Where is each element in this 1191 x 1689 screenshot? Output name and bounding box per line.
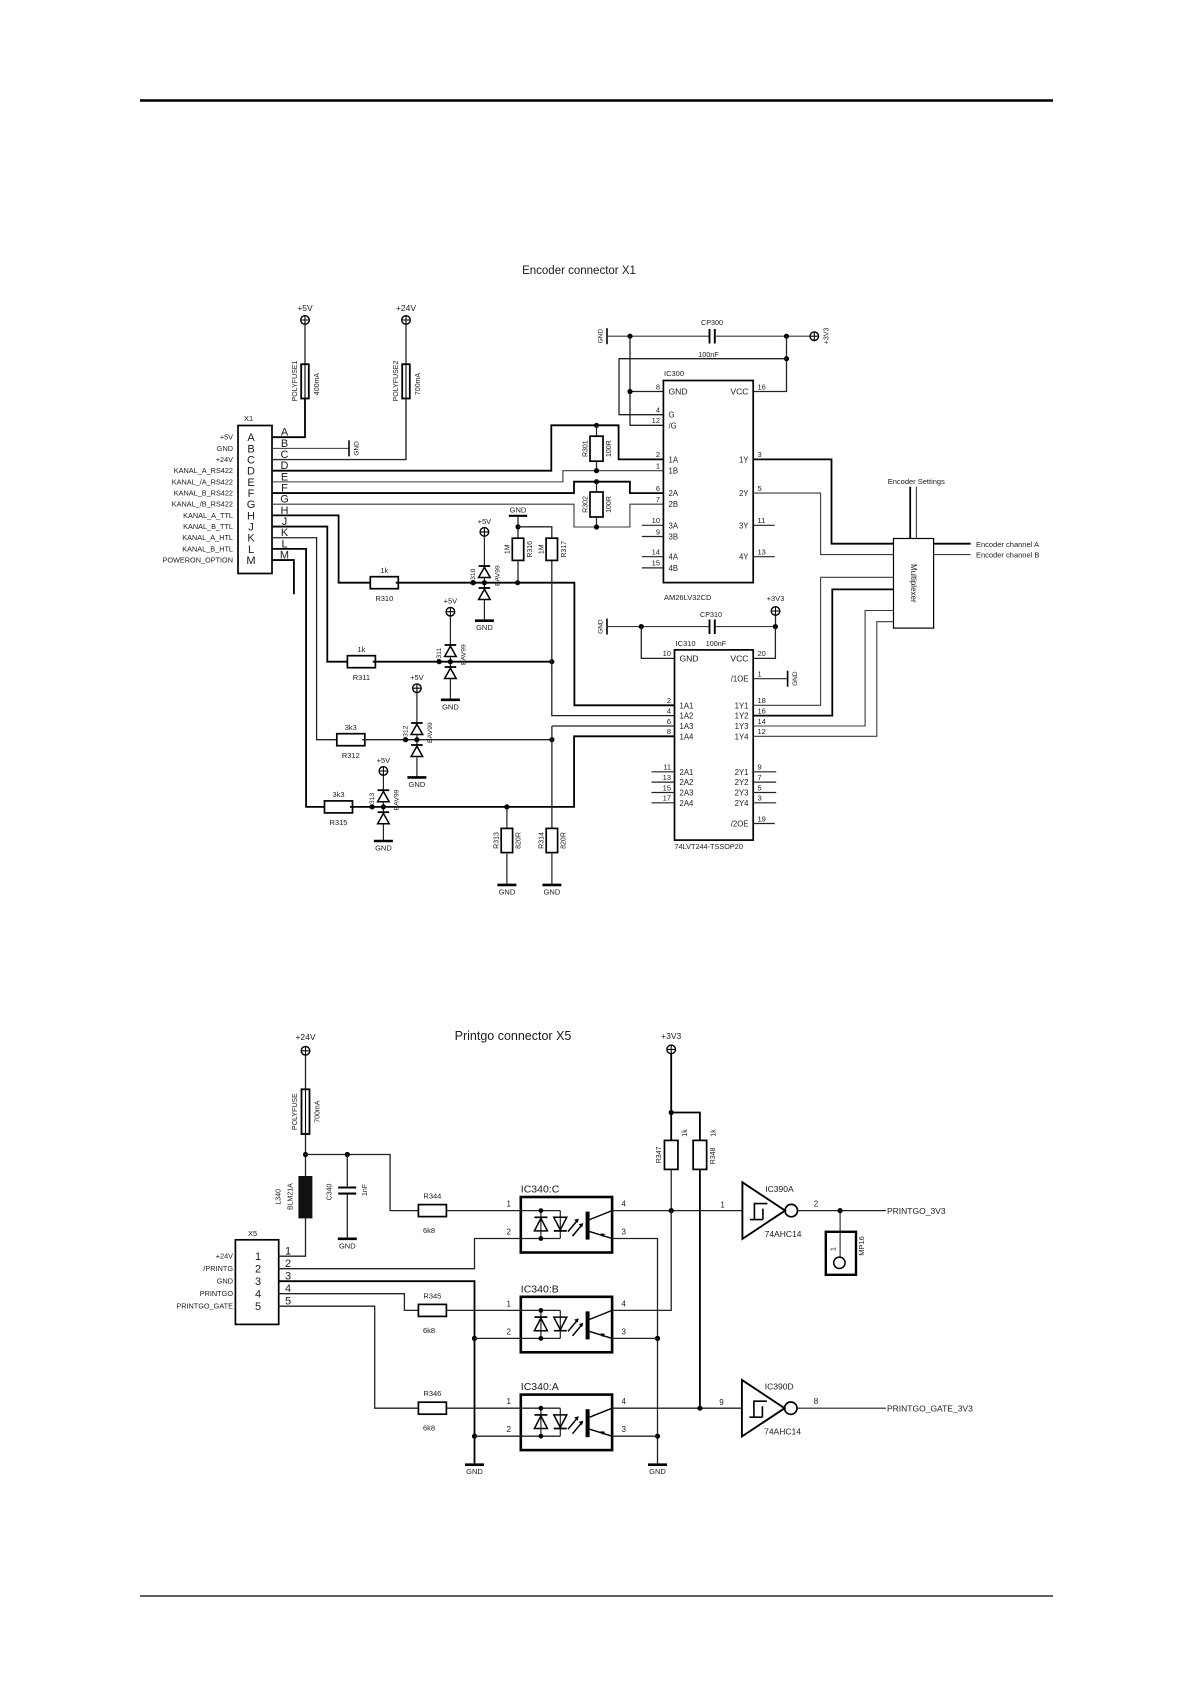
ground at IC310 /1OE: [787, 671, 789, 687]
svg-text:R311: R311: [353, 673, 370, 682]
svg-text:6k8: 6k8: [423, 1326, 435, 1335]
svg-text:3k3: 3k3: [345, 723, 357, 732]
net PRINTGO_3V3 output: [798, 1210, 887, 1212]
svg-text:BAV99: BAV99: [427, 722, 434, 743]
polyfuse POLYFUSE 700mA: [305, 1055, 307, 1089]
svg-text:POLYFUSE: POLYFUSE: [292, 1093, 299, 1130]
ground below R314: [542, 884, 561, 887]
svg-text:8: 8: [814, 1397, 819, 1406]
svg-text:4: 4: [622, 1200, 627, 1209]
svg-text:1A1: 1A1: [680, 701, 694, 710]
svg-text:13: 13: [663, 773, 671, 782]
svg-text:R315: R315: [330, 818, 348, 827]
svg-text:1A: 1A: [669, 455, 679, 464]
svg-text:1: 1: [829, 1247, 838, 1251]
svg-text:4: 4: [622, 1299, 627, 1308]
svg-text:18: 18: [758, 696, 766, 705]
svg-text:1A3: 1A3: [680, 722, 694, 731]
svg-text:16: 16: [758, 382, 766, 391]
svg-text:700mA: 700mA: [315, 1100, 322, 1123]
wire R312 to 1A3 node: [362, 739, 552, 741]
node on 1A1 net: [471, 580, 476, 585]
svg-text:1Y1: 1Y1: [735, 701, 749, 710]
ground below R313: [497, 884, 516, 887]
capacitor CP310 100nF: [607, 626, 709, 628]
svg-text:16: 16: [758, 706, 766, 715]
svg-text:1A2: 1A2: [680, 712, 694, 721]
svg-text:G: G: [669, 411, 675, 420]
node C340 top: [345, 1152, 350, 1157]
wire X1 pin B to ground: [272, 447, 349, 449]
svg-text:R347: R347: [656, 1146, 663, 1163]
svg-text:IC340:C: IC340:C: [521, 1184, 560, 1196]
resistor R347 1k: [664, 1140, 678, 1169]
svg-text:BAV99: BAV99: [460, 644, 467, 665]
svg-text:IC300: IC300: [664, 369, 684, 378]
net IC300 2Y to multiplexer (encoder B): [753, 493, 893, 554]
wire +24V fuse to X1 pin C: [272, 399, 406, 460]
wire R317 / 1A2 vertical to IC310 pin 4: [552, 560, 675, 715]
net KANAL_B_HTL: X1 L via R315 to IC310 1A4: [272, 549, 327, 807]
capacitor C340 1nF: [346, 1155, 348, 1187]
svg-text:GND: GND: [353, 441, 360, 456]
svg-text:1: 1: [507, 1299, 512, 1308]
node GND rail tie: [627, 334, 632, 339]
svg-text:PRINTGO_GATE: PRINTGO_GATE: [176, 1302, 233, 1311]
svg-text:3: 3: [758, 794, 762, 803]
IC310 stub /2OE pin 19: [753, 823, 775, 825]
resistor R315 3k3: [325, 801, 353, 813]
resistor R317 1M: [546, 538, 557, 560]
svg-text:+5V: +5V: [377, 756, 391, 765]
net Encoder channel B: [934, 554, 971, 556]
svg-text:1M: 1M: [505, 544, 512, 554]
svg-text:CP310: CP310: [700, 610, 722, 619]
svg-text:1Y3: 1Y3: [735, 722, 749, 731]
ferrite bead L340 BLM21A: [298, 1176, 312, 1218]
wire R314 to ground: [551, 853, 553, 885]
svg-text:+5V: +5V: [444, 597, 458, 606]
svg-text:7: 7: [656, 495, 660, 504]
svg-text:2: 2: [507, 1425, 512, 1434]
ground at X1 pin B: [348, 440, 350, 456]
svg-text:2A: 2A: [669, 489, 679, 498]
svg-text:CP300: CP300: [701, 318, 723, 327]
wire R311 to 1A2 node: [373, 661, 552, 663]
net IC300 1Y to multiplexer (encoder A): [753, 459, 893, 543]
node polyfuse/L340 junction: [303, 1152, 308, 1157]
net IC340:B pin 4 up to IC390A input: [612, 1211, 671, 1311]
svg-text:11: 11: [758, 516, 766, 525]
svg-text:5: 5: [758, 484, 762, 493]
svg-text:2Y4: 2Y4: [735, 799, 750, 808]
svg-text:2A2: 2A2: [680, 778, 694, 787]
svg-text:2Y: 2Y: [739, 489, 749, 498]
svg-text:KANAL_A_TTL: KANAL_A_TTL: [183, 511, 233, 520]
svg-text:GND: GND: [499, 887, 516, 896]
svg-text:3: 3: [622, 1327, 627, 1336]
net PRINTGO_GATE_3V3 output: [797, 1407, 886, 1409]
net IC310 1Y4 to multiplexer: [753, 622, 893, 737]
svg-text:GND: GND: [217, 1277, 233, 1286]
wire +3V3 down to R347/R348: [670, 1054, 672, 1141]
svg-text:2A1: 2A1: [680, 768, 694, 777]
svg-text:R314: R314: [539, 832, 546, 849]
+3V3 supply at CP300: [810, 332, 819, 341]
wire R316 to 1A1 net: [517, 560, 519, 582]
rail to C340 and R344: [306, 1155, 419, 1211]
svg-text:IC390D: IC390D: [765, 1382, 794, 1392]
svg-text:Encoder Settings: Encoder Settings: [888, 477, 945, 486]
wire R346 to IC340:A pin 1: [447, 1407, 521, 1409]
svg-text:KANAL_B_RS422: KANAL_B_RS422: [174, 489, 233, 498]
svg-text:KANAL_/A_RS422: KANAL_/A_RS422: [172, 477, 233, 486]
svg-text:+5V: +5V: [478, 517, 492, 526]
net opto outputs 3: IC340 C/B/A pin 3 to ground: [612, 1239, 657, 1465]
svg-text:MP16: MP16: [857, 1236, 866, 1256]
svg-text:9: 9: [719, 1398, 724, 1407]
svg-text:KANAL_B_TTL: KANAL_B_TTL: [183, 522, 233, 531]
node R313 top: [504, 804, 509, 809]
svg-text:R317: R317: [561, 541, 568, 558]
svg-text:100R: 100R: [606, 440, 613, 457]
wire R310 to IC310 pin 2 (1A1): [396, 583, 675, 706]
svg-text:Printgo connector X5: Printgo connector X5: [455, 1029, 572, 1043]
net KANAL_A_TTL: X1 H via R310 to IC310 1A1: [272, 515, 373, 582]
capacitor CP300 100nF: [607, 335, 709, 337]
resistor R314 820R: [546, 828, 557, 852]
svg-text:6k8: 6k8: [423, 1424, 435, 1433]
svg-text:GND: GND: [476, 623, 493, 632]
node R301 bottom: [594, 468, 599, 473]
resistor R346 6k8: [418, 1402, 446, 1414]
net KANAL_/A_RS422: X1 E to IC300 1B: [272, 471, 663, 482]
svg-text:4: 4: [622, 1397, 627, 1406]
bottom border rule: [140, 1595, 1053, 1597]
svg-text:9: 9: [656, 527, 660, 536]
svg-text:R313: R313: [494, 832, 501, 849]
svg-text:POLYFUSE2: POLYFUSE2: [393, 361, 400, 402]
net IC340:A pin 4 to IC390D: [612, 1407, 742, 1409]
svg-text:19: 19: [758, 814, 766, 823]
svg-text:4B: 4B: [669, 564, 679, 573]
svg-text:14: 14: [652, 548, 660, 557]
svg-text:/PRINTG: /PRINTG: [203, 1264, 233, 1273]
schmitt inverter IC390D 74AHC14: [742, 1380, 785, 1437]
svg-text:BLM21A: BLM21A: [288, 1183, 295, 1210]
svg-text:4Y: 4Y: [739, 553, 749, 562]
node R302 bottom: [594, 524, 599, 529]
svg-text:14: 14: [758, 717, 766, 726]
net PRINTGO_GATE: X5 pin 5 via R346: [279, 1306, 419, 1408]
svg-text:2: 2: [656, 450, 660, 459]
resistor R302 100R: [596, 482, 598, 492]
svg-text:PRINTGO_3V3: PRINTGO_3V3: [887, 1206, 946, 1216]
svg-text:+24V: +24V: [216, 455, 233, 464]
svg-text:6: 6: [656, 484, 660, 493]
resistor R344 6k8: [418, 1205, 446, 1217]
svg-text:5: 5: [255, 1301, 261, 1313]
svg-text:100R: 100R: [606, 496, 613, 513]
net IC310 1Y1 to multiplexer: [753, 577, 893, 705]
node IC340:B pin 2 tie: [472, 1336, 477, 1341]
svg-text:GND: GND: [649, 1467, 666, 1476]
svg-text:3: 3: [622, 1228, 627, 1237]
schmitt inverter IC390A 74AHC14: [742, 1182, 785, 1239]
svg-text:Encoder connector X1: Encoder connector X1: [522, 265, 636, 277]
wire R345 to IC340:B pin 1: [447, 1309, 521, 1311]
svg-text:GND: GND: [680, 653, 699, 663]
svg-text:1: 1: [656, 462, 660, 471]
svg-text:3k3: 3k3: [332, 790, 344, 799]
net IC310 1Y2 to multiplexer: [753, 589, 893, 715]
net IC340:C pin 4 to IC390A: [612, 1210, 742, 1212]
node 1A2 net junction: [549, 659, 554, 664]
svg-text:100nF: 100nF: [698, 350, 719, 359]
svg-text:2A3: 2A3: [680, 789, 694, 798]
svg-text:1k: 1k: [380, 566, 388, 575]
svg-text:1Y: 1Y: [739, 455, 749, 464]
wire polyfuse to L340: [305, 1134, 307, 1176]
wire GND rail to IC310 pin 10: [641, 627, 674, 659]
svg-text:3: 3: [255, 1276, 261, 1288]
svg-text:1Y2: 1Y2: [735, 712, 749, 721]
svg-text:+3V3: +3V3: [824, 328, 831, 345]
resistor R311 1k: [347, 656, 375, 668]
resistor R313 820R: [506, 807, 508, 829]
svg-text:GND: GND: [442, 702, 459, 711]
resistor R312 3k3: [337, 734, 365, 746]
IC310 unconnected stubs 11 13 15 17: [652, 771, 675, 773]
svg-text:VCC: VCC: [730, 653, 748, 663]
svg-text:Encoder channel A: Encoder channel A: [976, 540, 1039, 549]
svg-text:KANAL_B_HTL: KANAL_B_HTL: [182, 544, 233, 553]
svg-text:VCC: VCC: [730, 387, 748, 397]
wire R348 down to IC390D input node: [699, 1169, 701, 1408]
svg-text:R316: R316: [527, 541, 534, 558]
svg-text:BAV99: BAV99: [494, 565, 501, 586]
svg-text:2B: 2B: [669, 500, 679, 509]
svg-text:74LVT244-TSSOP20: 74LVT244-TSSOP20: [675, 842, 743, 851]
svg-text:IC310: IC310: [676, 639, 696, 648]
svg-text:PRINTGO: PRINTGO: [200, 1289, 234, 1298]
svg-text:Encoder channel B: Encoder channel B: [976, 551, 1039, 560]
polyfuse POLYFUSE1 400mA: [304, 324, 306, 364]
IC300 stub 4Y pin 13: [753, 556, 775, 558]
test point MP16: [839, 1211, 841, 1258]
svg-text:X1: X1: [244, 414, 253, 423]
node IC390D input junction: [697, 1406, 702, 1411]
resistor R316 1M: [512, 538, 523, 560]
node R301 top: [594, 423, 599, 428]
svg-text:20: 20: [758, 649, 766, 658]
svg-text:3Y: 3Y: [739, 521, 749, 530]
svg-text:GND: GND: [409, 780, 426, 789]
svg-text:R310: R310: [375, 594, 393, 603]
svg-text:+5V: +5V: [297, 303, 313, 313]
polyfuse POLYFUSE2 700mA: [405, 324, 407, 364]
svg-text:1nF: 1nF: [362, 1184, 369, 1196]
svg-text:2: 2: [507, 1228, 512, 1237]
ground below C340: [338, 1238, 357, 1241]
svg-text:1k: 1k: [682, 1129, 689, 1137]
svg-text:10: 10: [652, 516, 660, 525]
svg-text:1A4: 1A4: [680, 732, 695, 741]
svg-text:R346: R346: [423, 1389, 441, 1398]
svg-text:13: 13: [758, 548, 766, 557]
svg-text:GND: GND: [597, 329, 604, 344]
svg-text:L340: L340: [275, 1189, 282, 1205]
svg-text:1: 1: [720, 1201, 725, 1210]
svg-text:3: 3: [622, 1425, 627, 1434]
svg-text:17: 17: [663, 794, 671, 803]
svg-text:+24V: +24V: [295, 1032, 315, 1042]
node IC390A input junction: [669, 1208, 674, 1213]
resistor R310 1k: [370, 577, 398, 589]
svg-text:POLYFUSE1: POLYFUSE1: [292, 361, 299, 402]
svg-text:100nF: 100nF: [706, 639, 727, 648]
svg-text:6k8: 6k8: [423, 1226, 435, 1235]
wires Encoder Settings into multiplexer: [909, 487, 911, 539]
svg-text:2: 2: [814, 1200, 819, 1209]
svg-text:11: 11: [663, 763, 671, 772]
svg-text:1: 1: [758, 670, 762, 679]
node R316/R317 ground tie: [515, 524, 520, 529]
svg-text:IC340:A: IC340:A: [521, 1381, 559, 1393]
svg-text:15: 15: [663, 783, 671, 792]
svg-text:GND: GND: [217, 444, 233, 453]
IC300 stub 3Y pin 11: [753, 524, 775, 526]
svg-text:2: 2: [667, 696, 671, 705]
svg-text:2A4: 2A4: [680, 799, 695, 808]
IC310 unconnected stubs 9 7 5 3: [753, 771, 776, 773]
svg-text:GND: GND: [466, 1467, 483, 1476]
svg-text:Multiplexer: Multiplexer: [909, 564, 918, 603]
svg-text:820R: 820R: [516, 832, 523, 849]
svg-text:GND: GND: [669, 387, 688, 397]
node 1A3 net junction: [549, 737, 554, 742]
svg-text:POWERON_OPTION: POWERON_OPTION: [162, 556, 233, 565]
svg-text:4: 4: [667, 706, 671, 715]
wire GND rail to IC300 pin 8 and pin 12: [630, 336, 663, 425]
ground below X5 GND net: [465, 1463, 484, 1466]
svg-text:R344: R344: [423, 1192, 441, 1201]
node R302 top: [594, 479, 599, 484]
svg-text:/G: /G: [669, 421, 677, 430]
svg-text:KANAL_A_HTL: KANAL_A_HTL: [182, 533, 233, 542]
svg-text:2Y2: 2Y2: [735, 778, 749, 787]
svg-text:R302: R302: [583, 496, 590, 513]
svg-text:1: 1: [507, 1200, 512, 1209]
wire IC310 /1OE to ground: [753, 678, 787, 680]
wire R313 to ground: [506, 853, 508, 885]
svg-text:+24V: +24V: [216, 1252, 233, 1261]
wire 1A3 node up to IC310 pin 6: [552, 725, 675, 727]
resistor R301 100R: [596, 425, 598, 436]
svg-text:1B: 1B: [669, 467, 679, 476]
svg-text:X5: X5: [248, 1229, 257, 1238]
svg-text:8: 8: [656, 382, 660, 391]
wire L340 to X5 pin 1: [279, 1218, 306, 1256]
svg-text:GND: GND: [597, 619, 604, 634]
ground at CP300 rail: [606, 328, 608, 344]
svg-text:KANAL_A_RS422: KANAL_A_RS422: [174, 466, 233, 475]
svg-text:+24V: +24V: [396, 303, 416, 313]
svg-text:3A: 3A: [669, 521, 679, 530]
node IC340:A pin 2 tie: [472, 1434, 477, 1439]
svg-text:IC340:B: IC340:B: [521, 1283, 559, 1295]
svg-text:/1OE: /1OE: [731, 675, 749, 684]
svg-text:1k: 1k: [711, 1129, 718, 1137]
net KANAL_A_RS422: X1 D to IC300 1A: [272, 425, 663, 470]
svg-text:1Y4: 1Y4: [735, 732, 750, 741]
resistor R348 1k: [693, 1140, 707, 1169]
svg-text:GND: GND: [544, 887, 561, 896]
net GND: X5 pin 3 down to ground: [279, 1281, 475, 1465]
svg-text:12: 12: [758, 727, 766, 736]
net KANAL_/B_RS422: X1 G to IC300 2B: [272, 504, 663, 527]
svg-text:+5V: +5V: [410, 673, 424, 682]
svg-text:1: 1: [285, 1246, 291, 1258]
net IC310 1Y3 to multiplexer: [753, 611, 893, 727]
ground at CP310 rail: [606, 619, 608, 635]
net Encoder channel A: [934, 543, 971, 545]
svg-text:6: 6: [667, 717, 671, 726]
svg-text:R301: R301: [583, 440, 590, 457]
svg-text:/2OE: /2OE: [731, 820, 749, 829]
svg-text:KANAL_/B_RS422: KANAL_/B_RS422: [172, 500, 233, 509]
svg-text:2: 2: [255, 1264, 261, 1276]
svg-text:400mA: 400mA: [314, 373, 321, 396]
svg-text:R345: R345: [423, 1291, 441, 1300]
resistor R345 6k8: [418, 1304, 446, 1316]
svg-text:2Y3: 2Y3: [735, 789, 749, 798]
wire VCC rail to IC300 pin 16 and pin 4: [753, 336, 786, 391]
wire R344 to IC340:C pin 1: [447, 1210, 521, 1212]
net KANAL_A_HTL: X1 K via R312 to IC310 1A3: [272, 538, 339, 740]
net /PRINTG: X5 pin 2 to IC340:C pin 2: [279, 1239, 521, 1269]
svg-text:9: 9: [758, 763, 762, 772]
svg-text:IC390A: IC390A: [765, 1184, 794, 1194]
svg-text:BAV99: BAV99: [393, 789, 400, 810]
node VCC rail tie: [784, 334, 789, 339]
svg-text:74AHC14: 74AHC14: [764, 1427, 801, 1437]
IC300 unconnected stubs 10 9 14 15: [642, 524, 664, 526]
wire 1A3 node down to R314: [551, 726, 553, 828]
svg-text:3: 3: [758, 450, 762, 459]
wire R315 to IC310 pin 8 (1A4): [350, 736, 675, 807]
net KANAL_B_TTL: X1 J via R311 to IC310 1A2: [272, 527, 350, 662]
svg-text:7: 7: [758, 773, 762, 782]
svg-text:AM26LV32CD: AM26LV32CD: [664, 593, 712, 602]
svg-text:GND: GND: [375, 844, 392, 853]
svg-text:4: 4: [656, 406, 660, 415]
svg-text:1M: 1M: [538, 544, 545, 554]
multiplexer box: [894, 539, 934, 629]
svg-text:2Y1: 2Y1: [735, 768, 749, 777]
svg-text:8: 8: [667, 727, 671, 736]
svg-text:700mA: 700mA: [415, 373, 422, 396]
svg-text:R348: R348: [710, 1147, 717, 1164]
svg-text:1k: 1k: [357, 645, 365, 654]
node CP310 GND tie: [639, 624, 644, 629]
svg-text:5: 5: [758, 783, 762, 792]
svg-text:820R: 820R: [561, 832, 568, 849]
svg-text:3B: 3B: [669, 533, 679, 542]
svg-text:+3V3: +3V3: [661, 1031, 681, 1041]
svg-text:PRINTGO_GATE_3V3: PRINTGO_GATE_3V3: [887, 1404, 973, 1414]
svg-text:+5V: +5V: [220, 433, 233, 442]
